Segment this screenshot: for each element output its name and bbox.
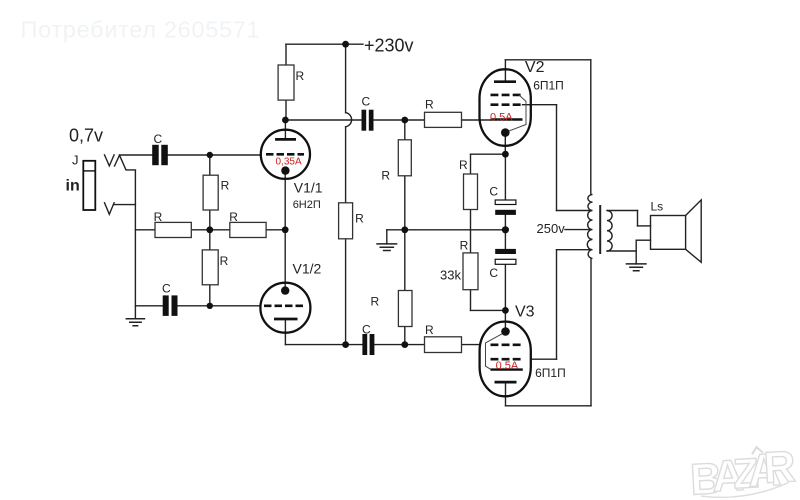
svg-text:R: R (355, 212, 364, 226)
svg-text:+230v: +230v (364, 36, 414, 56)
svg-text:R: R (220, 254, 229, 268)
svg-text:C: C (154, 132, 163, 146)
svg-text:C: C (362, 95, 371, 109)
svg-text:R: R (459, 158, 468, 172)
svg-text:0.5A: 0.5A (490, 112, 513, 124)
svg-text:Ls: Ls (651, 199, 664, 213)
svg-text:R: R (425, 98, 434, 112)
svg-text:J: J (72, 152, 79, 167)
svg-text:6Н2П: 6Н2П (293, 199, 321, 211)
svg-text:R: R (425, 323, 434, 337)
svg-text:in: in (66, 178, 80, 195)
svg-text:6П1П: 6П1П (533, 79, 564, 93)
svg-text:R: R (381, 168, 390, 182)
svg-text:C: C (489, 184, 498, 198)
svg-text:33k: 33k (440, 267, 461, 282)
svg-text:C: C (362, 323, 371, 337)
svg-text:R: R (762, 442, 796, 493)
svg-text:0,7v: 0,7v (69, 126, 103, 146)
svg-text:V2: V2 (525, 59, 545, 76)
svg-text:0,35A: 0,35A (276, 157, 302, 168)
svg-text:R: R (154, 210, 163, 224)
svg-text:0.5A: 0.5A (496, 360, 519, 372)
svg-text:V3: V3 (515, 303, 535, 320)
svg-text:V1/2: V1/2 (293, 260, 322, 276)
svg-text:6П1П: 6П1П (535, 366, 566, 380)
svg-text:250v: 250v (537, 221, 566, 236)
svg-text:R: R (371, 295, 380, 309)
svg-text:R: R (460, 238, 469, 252)
svg-text:C: C (489, 266, 498, 280)
svg-text:R: R (296, 69, 305, 83)
svg-text:V1/1: V1/1 (294, 180, 323, 196)
svg-text:Потребител 2605571: Потребител 2605571 (21, 17, 261, 43)
svg-text:R: R (221, 179, 230, 193)
svg-text:R: R (229, 210, 238, 224)
svg-text:C: C (162, 282, 171, 296)
